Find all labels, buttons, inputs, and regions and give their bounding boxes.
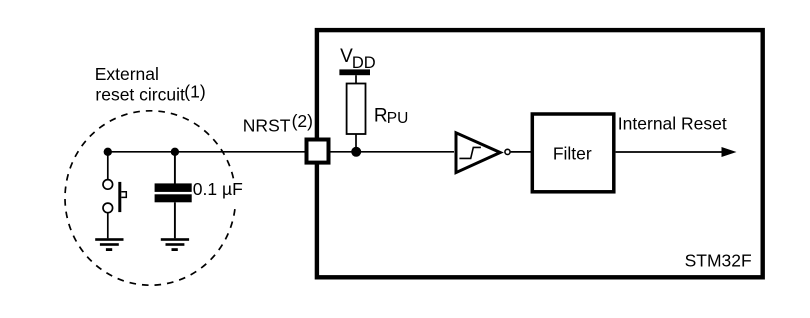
svg-text:(1): (1) xyxy=(184,82,205,102)
svg-text:PU: PU xyxy=(387,110,409,127)
svg-text:reset circuit: reset circuit xyxy=(95,85,185,105)
svg-text:NRST: NRST xyxy=(243,116,291,136)
svg-text:Filter: Filter xyxy=(553,144,592,164)
svg-text:0.1 µF: 0.1 µF xyxy=(193,179,243,199)
svg-text:STM32F: STM32F xyxy=(685,251,752,271)
svg-text:(2): (2) xyxy=(292,111,313,131)
svg-text:Internal Reset: Internal Reset xyxy=(618,114,727,134)
svg-text:R: R xyxy=(374,105,388,126)
svg-text:External: External xyxy=(95,64,159,84)
svg-text:DD: DD xyxy=(352,54,376,72)
